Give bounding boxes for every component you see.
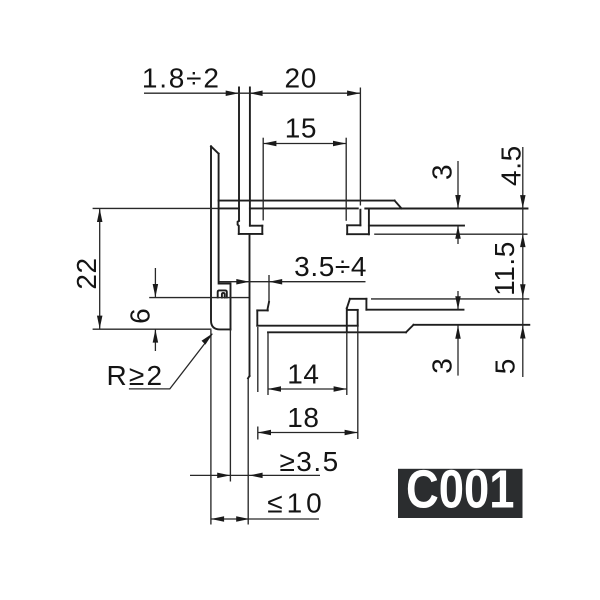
arrow 1.8÷2 left — [226, 90, 239, 96]
svg-text:18: 18 — [287, 402, 319, 433]
arrow 6 top — [153, 284, 159, 297]
dimension 3 bottom (inner) — [457, 291, 459, 310]
profile: wall right face upper + 3.5/4 extension — [268, 275, 270, 302]
extension: 18 left lower stub — [257, 427, 259, 440]
profile: upper arm underside over flange — [219, 207, 239, 209]
extension: from hook cap to right dims — [371, 298, 529, 300]
extension: 20 right — [359, 88, 361, 206]
profile: wall left break jog — [248, 376, 250, 378]
arrow 20 right — [347, 90, 360, 96]
extension: 14 right / lower lip face — [346, 308, 348, 332]
profile: left flange outer edge with bottom radius R — [211, 146, 231, 329]
arrow 3 top upper — [455, 195, 461, 208]
svg-text:3: 3 — [427, 358, 458, 374]
profile: upper-left foot bottom — [239, 233, 262, 235]
profile: web right line — [249, 88, 251, 226]
svg-text:≤10: ≤10 — [267, 488, 326, 519]
arrow 3 top lower — [455, 226, 461, 239]
extension: 18 right from riser — [357, 326, 359, 439]
extension: 22 bottom — [93, 328, 212, 330]
extension: 15 left + upper lip stub — [262, 138, 264, 221]
profile: upper-right hook cap shelf — [347, 224, 360, 226]
extension: 18 left from notch tip — [257, 327, 259, 392]
arrow R>=2 — [202, 333, 213, 344]
arrow 22 top — [97, 209, 103, 222]
arrow chain at 297.5 — [520, 284, 526, 297]
dimension 18 — [258, 432, 358, 434]
extension: <=10 left from flange outer — [210, 330, 212, 525]
profile: upper-right hook cap left face — [346, 225, 348, 234]
profile: lower arm top right edge — [366, 309, 463, 311]
part number box C001 — [398, 469, 523, 518]
profile: lower-right hook tab bottom — [347, 309, 358, 311]
profile: bridge top edge / 6-dim extension — [149, 297, 249, 299]
svg-text:14: 14 — [287, 358, 319, 389]
extension: wall left face lower continuation — [247, 378, 249, 524]
extension: 14 right lower part — [346, 332, 348, 395]
arrow 18 right — [345, 430, 358, 436]
svg-text:5: 5 — [490, 358, 521, 374]
arrow 15 right — [333, 141, 346, 147]
arrow 3 bottom upper — [455, 296, 461, 309]
profile: wall right face below arm + 14 extension — [267, 332, 269, 395]
arrow 6 bottom — [153, 329, 159, 342]
dimension 6 — [154, 268, 156, 297]
dimension >=3.5 — [190, 474, 320, 476]
arrow 14 left — [268, 386, 281, 392]
arrow >=3.5 right — [249, 473, 262, 479]
profile: upper-left foot shelf — [250, 225, 262, 227]
profile: upper-right hook descender right face — [368, 210, 370, 235]
arrow 3.5÷4 right — [269, 279, 282, 285]
extension: >=3.5 left from toe — [229, 329, 231, 481]
extension: 15 right + upper lip stub — [345, 138, 347, 221]
outer dimension chain line 4.5 / 11.5 / 5 — [522, 147, 524, 377]
svg-text:11.5: 11.5 — [489, 241, 520, 296]
profile: upper-right hook cap bottom — [347, 233, 369, 235]
svg-text:C001: C001 — [406, 460, 515, 520]
profile: lower-right hook riser right face — [365, 299, 367, 310]
profile: gasket finger curled tip (flag with groove) — [218, 290, 227, 297]
profile: upper arm lower-right edge — [369, 225, 464, 227]
profile: upper arm top chamfer — [395, 201, 402, 209]
svg-text:4.5: 4.5 — [496, 145, 527, 186]
dimension 15 — [263, 143, 346, 145]
profile: finger tip groove — [222, 293, 225, 298]
leader R>=2 — [129, 334, 212, 389]
svg-text:R≥2: R≥2 — [107, 360, 165, 391]
svg-text:20: 20 — [285, 62, 317, 93]
svg-text:15: 15 — [285, 112, 317, 143]
arrow chain at 234 — [520, 234, 526, 247]
arrow chain at 208 — [520, 195, 526, 208]
svg-text:22: 22 — [71, 257, 102, 289]
profile: flange top chamfer — [211, 146, 219, 153]
profile: upper arm underside right segment to dim line — [365, 208, 527, 210]
profile: upper arm top edge — [219, 200, 395, 202]
profile: web left line — [238, 88, 240, 221]
profile: lower-right hook riser left face — [357, 310, 359, 326]
svg-text:6: 6 — [125, 308, 156, 324]
profile: upper-right hook descender left face — [359, 210, 361, 226]
profile: lower-left notch shelf — [257, 309, 267, 311]
profile: lower arm top left edge — [257, 325, 357, 327]
profile: lower-right hook cap left slant — [347, 299, 350, 309]
profile: flange inner edge — [219, 154, 231, 330]
profile: lower arm bottom left edge — [268, 331, 406, 333]
profile: lower arm bottom right edge to dims — [414, 324, 530, 326]
dimension 1.8÷2 and 20: shared line — [144, 92, 360, 94]
arrow chain at 325.3 — [520, 325, 526, 338]
arrow 3.5÷4 left — [236, 279, 249, 285]
arrow <=10 right — [236, 516, 249, 522]
dimension 3.5÷4 — [220, 281, 366, 283]
arrow 20 left — [249, 90, 262, 96]
dimension 22 — [99, 209, 101, 329]
profile: wall left face — [249, 234, 251, 376]
dimension 14 — [268, 388, 347, 390]
profile: wall right break jog — [268, 302, 269, 310]
svg-text:3: 3 — [427, 164, 458, 180]
profile: lower-left notch tip — [256, 310, 258, 325]
profile: extension from hook bottom to right dims — [374, 233, 527, 235]
svg-text:3.5÷4: 3.5÷4 — [294, 251, 367, 282]
arrow 22 bottom — [97, 316, 103, 329]
svg-text:1.8÷2: 1.8÷2 — [142, 62, 221, 93]
dimension <=10 — [211, 518, 319, 520]
dimension 3 top (inner) — [457, 161, 459, 208]
profile: lower-right hook cap top — [350, 298, 367, 300]
arrow <=10 left — [211, 516, 224, 522]
profile: lower arm bottom chamfer — [406, 325, 414, 333]
svg-text:≥3.5: ≥3.5 — [279, 446, 339, 477]
arrow 18 left — [258, 430, 271, 436]
profile: upper-left foot tab tip — [261, 226, 263, 234]
profile: upper arm underside left segment + 22 extension — [93, 207, 219, 209]
arrow >=3.5 left — [217, 473, 230, 479]
arrow 15 left — [263, 141, 276, 147]
profile: upper arm underside mid segment — [250, 207, 358, 209]
arrow 14 right — [334, 386, 347, 392]
arrow 3 bottom lower — [455, 326, 461, 339]
profile: web left break jog and lower part — [238, 221, 239, 234]
